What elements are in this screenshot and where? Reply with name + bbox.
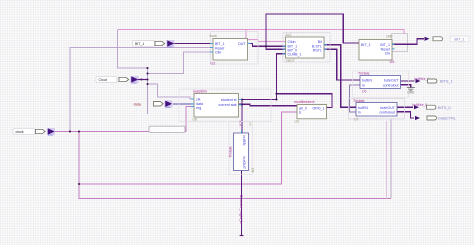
net thick signal wires	[174, 14, 424, 236]
wire y184	[79, 112, 297, 184]
svg-text:controlout: controlout	[379, 110, 395, 114]
svg-text:U5: U5	[390, 60, 395, 64]
svg-text:a_st: a_st	[238, 121, 242, 127]
component U1 selection	[283, 33, 330, 63]
svg-text:RSTL: RSTL	[313, 48, 322, 52]
wire clkr branch x183.7	[148, 52, 214, 74]
wire comp2 out to port BIT_1	[392, 39, 424, 45]
component U5 stub rect	[392, 34, 408, 52]
svg-text:bufeOUT: bufeOUT	[384, 79, 399, 83]
component registDin U8	[179, 89, 271, 122]
svg-text:Tristate: Tristate	[358, 72, 370, 76]
wire U1 out down to tristate2	[324, 45, 356, 107]
node BIT_1 output	[425, 36, 470, 42]
svg-text:Counter_eight_b: Counter_eight_b	[239, 195, 244, 224]
svg-text:Clkr: Clkr	[215, 51, 222, 55]
net bottom thin wires	[55, 107, 391, 199]
svg-text:OPI0_1: OPI0_1	[312, 106, 324, 110]
wire x79 down	[79, 132, 391, 199]
svg-text:Clout: Clout	[99, 78, 107, 82]
svg-text:bufeOUT: bufeOUT	[380, 106, 395, 110]
svg-text:U2: U2	[211, 62, 216, 66]
svg-text:Bit: Bit	[318, 40, 322, 44]
wire clout vertical x147.5	[147, 68, 149, 114]
svg-text:reg: reg	[196, 106, 201, 110]
wire long pink y29.5	[117, 30, 404, 42]
component Tristate U9 (rotated)	[229, 121, 255, 175]
svg-text:clock: clock	[16, 130, 24, 134]
svg-text:BIT_1: BIT_1	[135, 42, 144, 46]
component twob U2	[210, 32, 259, 66]
svg-text:twob: twob	[210, 34, 217, 38]
svg-text:U8: U8	[193, 118, 197, 122]
svg-text:current stat: current stat	[219, 103, 237, 107]
wire pink vertical x386.5	[386, 121, 388, 199]
wire register out1 to U1.clmb	[239, 54, 286, 100]
svg-text:GND: GND	[407, 90, 415, 94]
wire branch to modifieddevil	[277, 94, 333, 108]
wire clock-net vertical x70	[70, 48, 213, 132]
svg-text:VHDT: VHDT	[286, 59, 295, 63]
wire twob.out to U1.bit1	[251, 44, 286, 47]
wire register out2	[239, 104, 298, 105]
svg-text:U7: U7	[354, 117, 358, 121]
wire end tick	[240, 235, 244, 237]
component vhfb U5	[359, 35, 395, 65]
svg-text:in: in	[358, 110, 361, 114]
component twob U2 selection	[211, 32, 259, 65]
node BITS_1 output	[415, 77, 453, 84]
wire data input (blue)	[173, 103, 194, 105]
svg-text:registDin: registDin	[193, 90, 207, 94]
wire clock row	[55, 107, 194, 132]
svg-text:student st: student st	[221, 98, 237, 102]
component Tristate U6	[353, 71, 409, 98]
wire gray vertical x391	[390, 119, 392, 199]
svg-text:BITS_1: BITS_1	[440, 80, 453, 84]
wire clout to x117 up	[117, 30, 147, 69]
wire clkin step	[246, 30, 286, 42]
svg-text:ctl: ctl	[249, 123, 253, 126]
svg-text:data: data	[134, 102, 142, 106]
wire tristate2 out	[397, 106, 413, 108]
wire feedback loop left	[266, 14, 359, 46]
node DataCTRL output	[415, 116, 456, 121]
svg-text:bufOUT: bufOUT	[242, 157, 246, 170]
svg-text:U6: U6	[362, 90, 366, 94]
svg-text:U3: U3	[295, 120, 299, 124]
ground	[407, 88, 415, 91]
svg-text:clk: clk	[196, 98, 201, 102]
svg-text:Clk: Clk	[385, 51, 390, 55]
svg-text:Clkin: Clkin	[288, 40, 296, 44]
node Clout input	[96, 76, 148, 84]
svg-text:bufEN: bufEN	[358, 106, 368, 110]
wire bit1 input to twob	[174, 43, 213, 45]
svg-text:CLMB_1: CLMB_1	[288, 53, 302, 57]
svg-text:bufEN: bufEN	[362, 79, 372, 83]
wire vertical comp down	[241, 171, 243, 236]
wire tristate1 out	[401, 80, 415, 82]
component Tristate U7	[349, 99, 405, 122]
wire tristate2 ctrl to DataCTRL	[397, 112, 414, 118]
svg-text:in: in	[362, 83, 365, 87]
svg-text:bufEN: bufEN	[242, 136, 246, 146]
svg-text:OUT: OUT	[238, 42, 246, 46]
wire loop to U1.bit0	[266, 46, 286, 49]
wire down to vertical comp	[241, 100, 243, 134]
component AL1 U4	[283, 33, 331, 64]
node BITS_0 output	[413, 103, 451, 110]
svg-text:DataCTRL: DataCTRL	[438, 117, 456, 121]
svg-text:BIT_1: BIT_1	[455, 38, 465, 42]
component U8 selection	[179, 89, 271, 122]
wire U1.rstl to tristate1	[324, 49, 360, 80]
net clock/clout thin wires	[70, 30, 213, 132]
node clock netbox	[149, 126, 185, 132]
svg-text:vhfb: vhfb	[386, 35, 393, 39]
svg-text:U9: U9	[251, 168, 255, 172]
node BIT_1 input	[133, 40, 175, 48]
svg-text:BITS_0: BITS_0	[438, 106, 451, 110]
svg-text:Tristate: Tristate	[229, 146, 233, 158]
wire tristate in-pins tie	[349, 85, 360, 112]
svg-text:modifieddevil: modifieddevil	[294, 100, 315, 104]
svg-text:controlout: controlout	[383, 83, 399, 87]
svg-text:AL1: AL1	[286, 33, 292, 37]
node data input	[134, 100, 173, 108]
component modifieddevil U3	[294, 100, 327, 123]
svg-text:BIT_1: BIT_1	[361, 43, 371, 47]
wire tristate1 ctrl to gnd	[401, 85, 411, 88]
wire register clk feed	[148, 84, 195, 99]
node clock input	[13, 128, 55, 136]
